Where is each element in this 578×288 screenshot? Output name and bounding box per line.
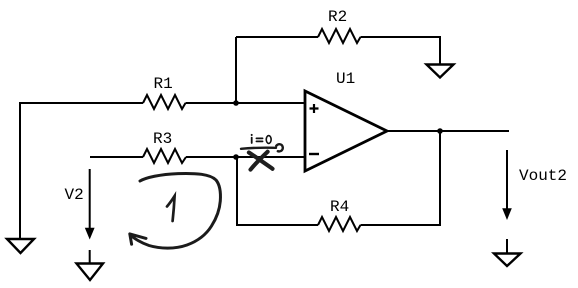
annotation: X mark over wire (i=0): [249, 152, 273, 170]
wire: R3 input: [90, 156, 143, 158]
label i=0: [252, 135, 271, 144]
svg-text:R3: R3: [153, 130, 172, 148]
wire: R3 to op-amp - input: [186, 156, 305, 158]
op-amp U1: [305, 70, 387, 171]
wire: node B down to R4: [237, 157, 318, 225]
resistor R3: [143, 130, 186, 163]
wire: R2 right to ground drop: [361, 37, 441, 64]
voltage arrow V2: [65, 169, 95, 240]
wire: R4 right up to output node: [361, 131, 441, 225]
wire: left vertical down to ground: [19, 103, 21, 238]
node A junction dot (noninverting input node): [233, 100, 239, 106]
ground (top right): [427, 65, 454, 78]
annotation: loop number 1: [167, 196, 175, 221]
wire: top wire to R2: [236, 36, 318, 38]
node B junction dot (inverting input node): [233, 154, 239, 160]
svg-text:Vout2: Vout2: [519, 167, 567, 185]
ground (below V2 arrow): [77, 250, 104, 280]
svg-text:V2: V2: [65, 186, 84, 204]
wire: node A up to top wire: [235, 37, 237, 103]
ground (bottom right): [494, 239, 521, 266]
resistor R4: [318, 198, 361, 231]
resistor R1: [143, 75, 186, 109]
wire: op-amp output: [387, 130, 509, 132]
node C junction dot (output node): [437, 128, 443, 134]
svg-text:R2: R2: [328, 8, 347, 26]
annotation: current direction arrow with curled head: [241, 144, 283, 151]
wire: R1 to op-amp + input: [186, 102, 306, 104]
voltage arrow Vout2: [502, 150, 567, 220]
svg-text:U1: U1: [336, 70, 355, 88]
resistor R2: [318, 8, 361, 43]
svg-text:R1: R1: [154, 75, 173, 93]
svg-text:R4: R4: [330, 198, 349, 216]
annotation: hand-drawn loop with arrow: [130, 173, 221, 248]
wire: R1 input from left corner: [19, 102, 143, 104]
ground (bottom left): [7, 239, 34, 253]
